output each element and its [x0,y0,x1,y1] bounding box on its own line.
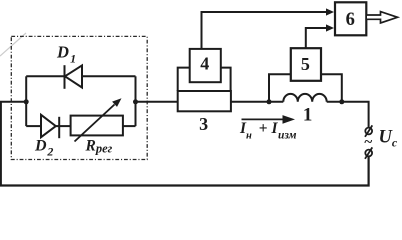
svg-text:~: ~ [364,134,372,150]
svg-text:4: 4 [200,54,209,74]
svg-text:6: 6 [346,10,355,30]
svg-text:5: 5 [301,54,310,74]
svg-text:3: 3 [199,114,208,134]
svg-text:1: 1 [303,105,313,126]
